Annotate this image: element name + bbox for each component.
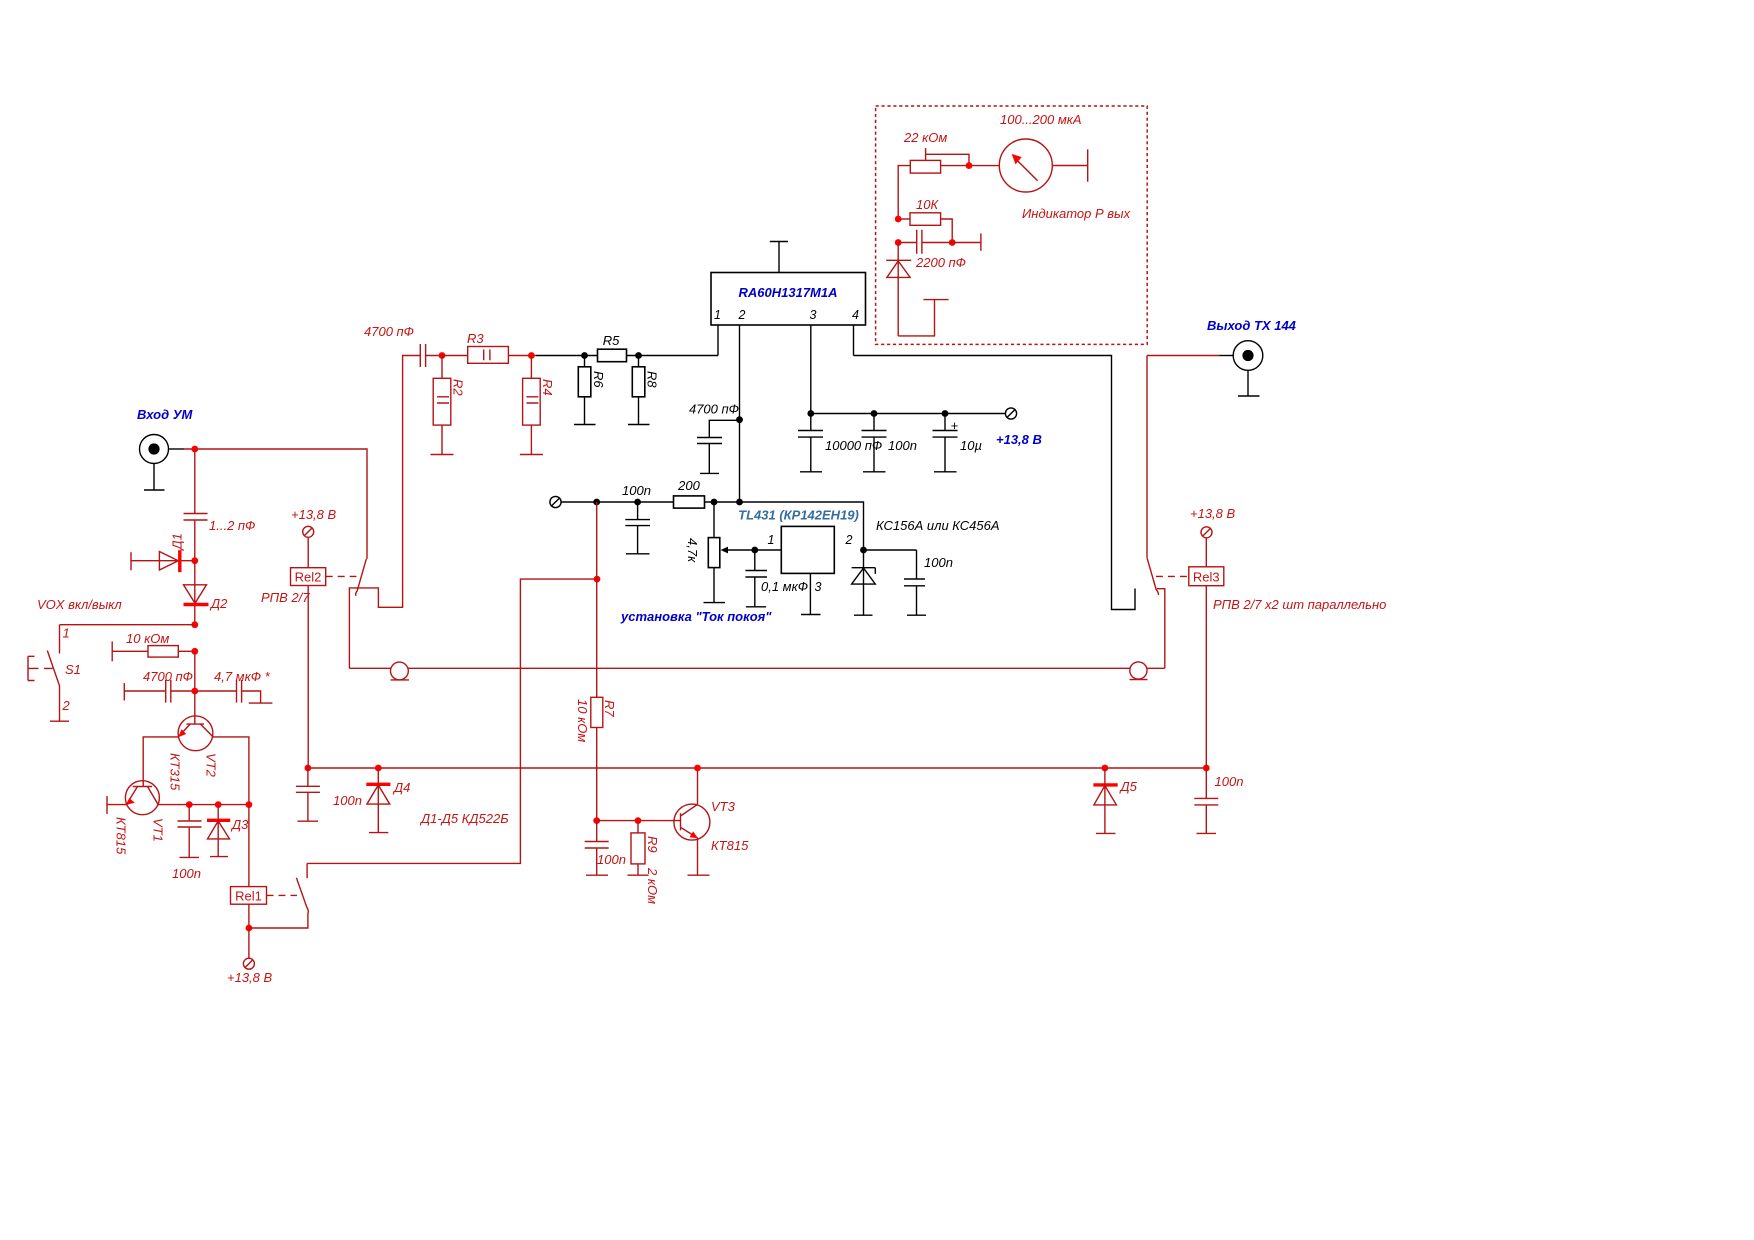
node D2 junction xyxy=(191,621,198,628)
ground D5 xyxy=(1096,832,1116,834)
svg-text:10К: 10К xyxy=(916,197,939,212)
node R7 bottom xyxy=(593,817,600,824)
capacitor 0,1uF xyxy=(745,550,808,607)
ground output connector xyxy=(1238,370,1260,396)
wire pin4 to Rel3 contact xyxy=(854,356,1136,610)
potentiometer 4,7k xyxy=(685,502,755,603)
svg-text:1: 1 xyxy=(714,308,721,322)
capacitor 4700pF (pin2) xyxy=(689,402,743,474)
node pin1 junction xyxy=(751,547,758,554)
resistor 200 xyxy=(674,478,705,508)
svg-text:VT2: VT2 xyxy=(204,753,219,778)
svg-text:Вход УМ: Вход УМ xyxy=(137,407,194,422)
svg-text:R7: R7 xyxy=(602,700,617,717)
node zener junction xyxy=(860,547,867,554)
connector Выход TX 144 xyxy=(1233,341,1263,371)
capacitor 100n (Rel3 bus) xyxy=(1194,768,1243,833)
svg-text:КТ315: КТ315 xyxy=(168,753,183,791)
ground 100n Rel2 xyxy=(298,820,319,822)
svg-text:2 кОм: 2 кОм xyxy=(645,867,660,904)
wire pin1 xyxy=(717,325,719,356)
svg-text:S1: S1 xyxy=(65,662,81,677)
wire VT1 collector bus xyxy=(158,804,249,806)
svg-text:R9: R9 xyxy=(645,836,660,853)
capacitor 100n (zener) xyxy=(904,550,953,615)
diode D4 xyxy=(366,768,410,833)
node bus D5 xyxy=(1102,765,1109,772)
svg-text:10 кОм: 10 кОм xyxy=(575,699,590,742)
svg-text:100n: 100n xyxy=(597,852,626,867)
relay contact Rel2 fixed path xyxy=(349,356,420,669)
svg-text:1...2 пФ: 1...2 пФ xyxy=(209,518,255,533)
wire VT3 emitter to ground xyxy=(697,838,699,875)
wire main 13.8V bus xyxy=(308,767,1206,769)
capacitor 100n (R7) xyxy=(585,821,626,876)
capacitor 10000pF xyxy=(798,414,882,472)
svg-text:4700 пФ: 4700 пФ xyxy=(689,402,739,417)
svg-text:VOX вкл/выкл: VOX вкл/выкл xyxy=(37,597,122,612)
feedthrough right xyxy=(1130,662,1148,680)
wire pin2 xyxy=(739,325,741,502)
dashed link Rel3 xyxy=(1156,575,1189,577)
node bus Rel2 xyxy=(305,765,312,772)
svg-text:4700 пФ: 4700 пФ xyxy=(364,324,414,339)
svg-text:Rel2: Rel2 xyxy=(295,570,322,585)
wire input to Rel2 lever xyxy=(184,449,367,559)
svg-text:10µ: 10µ xyxy=(960,438,982,453)
ground 100n rail xyxy=(626,553,650,555)
svg-text:R2: R2 xyxy=(451,379,466,396)
ground R6 xyxy=(574,424,596,426)
svg-text:РПВ 2/7: РПВ 2/7 xyxy=(261,590,310,605)
node bus D4 xyxy=(375,765,382,772)
ground TL431 pin3 xyxy=(801,614,821,616)
svg-text:VT1: VT1 xyxy=(151,818,166,842)
svg-text:+: + xyxy=(951,418,959,433)
wire output line red xyxy=(1147,356,1220,558)
svg-text:4,7 мкФ *: 4,7 мкФ * xyxy=(214,669,271,684)
svg-text:Д5: Д5 xyxy=(1119,779,1138,794)
svg-text:+13,8 В: +13,8 В xyxy=(291,507,337,522)
resistor R8 xyxy=(632,356,659,425)
ground 100n Rel3 xyxy=(1197,832,1217,834)
wire pin3 xyxy=(810,325,812,414)
svg-text:Rel1: Rel1 xyxy=(235,889,262,904)
node R2 junction xyxy=(439,352,446,359)
resistor R5 xyxy=(598,333,627,362)
wire input down xyxy=(194,449,196,514)
node bus VT3 xyxy=(694,765,701,772)
node caps junction xyxy=(191,688,198,695)
feedthrough left xyxy=(391,662,410,680)
ground R8 xyxy=(628,424,650,426)
transistor Q1 VT1 KT815 xyxy=(114,781,166,855)
svg-text:Выход ТХ 144: Выход ТХ 144 xyxy=(1207,318,1297,333)
svg-text:Д1: Д1 xyxy=(170,533,185,551)
relay coil Rel3 xyxy=(1189,506,1236,768)
node rail pot xyxy=(711,499,718,506)
wire VT2 emitter to VT1 base xyxy=(143,737,178,787)
capacitor 100n (VT1) xyxy=(172,805,202,881)
relay coil Rel2 xyxy=(261,507,337,768)
svg-text:100n: 100n xyxy=(888,438,917,453)
wire input line black segment xyxy=(536,355,718,357)
capacitor 100n (12V rail) xyxy=(622,483,651,554)
svg-text:КС156А или КС456А: КС156А или КС456А xyxy=(876,518,1000,533)
resistor 10K xyxy=(898,197,952,243)
diode D5 xyxy=(1093,768,1137,833)
wire bypass loop to R7 node xyxy=(307,579,597,863)
dashed link Rel1 xyxy=(267,894,298,896)
svg-text:100n: 100n xyxy=(622,483,651,498)
relay contact Rel3 fixed red xyxy=(1157,589,1165,669)
node R9 top xyxy=(635,817,642,824)
wire to caps xyxy=(194,651,196,691)
node 2200 left xyxy=(895,239,902,246)
svg-text:Индикатор Р вых: Индикатор Р вых xyxy=(1022,206,1131,221)
wire Rel1 to terminal xyxy=(248,928,250,958)
ground R2 xyxy=(431,454,454,456)
svg-text:+13,8 В: +13,8 В xyxy=(227,970,273,985)
svg-text:+13,8 В: +13,8 В xyxy=(1190,506,1236,521)
node 10K top xyxy=(895,216,902,223)
resistor R9 xyxy=(631,821,660,904)
svg-text:4: 4 xyxy=(852,308,859,322)
node 22k meter junction xyxy=(966,162,973,169)
node R5 left junction xyxy=(581,352,588,359)
wire VT3 collector to bus xyxy=(697,768,699,804)
terminal +13.8V black xyxy=(1005,408,1016,419)
node R7 line junction xyxy=(594,576,601,583)
node 10u junction xyxy=(942,410,949,417)
node pin3 junction xyxy=(807,410,814,417)
svg-text:RA60H1317M1A: RA60H1317M1A xyxy=(739,285,838,300)
wire +12V TX rail xyxy=(561,502,864,550)
ground R9 xyxy=(628,874,649,876)
svg-text:1: 1 xyxy=(63,626,70,641)
svg-text:100...200 мкА: 100...200 мкА xyxy=(1000,112,1082,127)
wire TL431 pin1 xyxy=(755,549,782,551)
wire RF bypass bus xyxy=(349,667,1164,669)
dashed box indicator xyxy=(876,106,1148,344)
node 2200 right xyxy=(949,239,956,246)
svg-text:2: 2 xyxy=(845,533,853,547)
svg-text:4700 пФ: 4700 пФ xyxy=(143,669,193,684)
svg-text:Д1-Д5 КД522Б: Д1-Д5 КД522Б xyxy=(419,811,509,826)
resistor R4 xyxy=(523,356,555,455)
svg-text:РПВ 2/7 х2 шт параллельно: РПВ 2/7 х2 шт параллельно xyxy=(1213,597,1386,612)
svg-text:100n: 100n xyxy=(172,866,201,881)
svg-text:КТ815: КТ815 xyxy=(114,817,129,855)
svg-text:3: 3 xyxy=(815,580,822,594)
ground D4 xyxy=(369,832,388,834)
node R4 junction xyxy=(528,352,535,359)
resistor R7 xyxy=(575,697,617,742)
svg-text:3: 3 xyxy=(810,308,817,322)
zener diode KC156A xyxy=(852,550,876,615)
relay contact Rel3 lever xyxy=(1147,558,1158,595)
dashed link Rel2 xyxy=(326,575,357,577)
ground 10u xyxy=(934,471,957,473)
capacitor 4700pF (input series) xyxy=(364,324,442,367)
node Rel1 junction xyxy=(246,925,253,932)
capacitor 4,7uF xyxy=(195,669,273,703)
svg-text:2: 2 xyxy=(62,698,71,713)
ground 4700pF xyxy=(700,472,719,474)
wire TL431 pin3 xyxy=(809,574,811,615)
relay contact Rel1 fixed xyxy=(306,863,308,878)
node VT2 collector xyxy=(246,801,253,808)
ground 10000pF xyxy=(800,471,822,473)
ground 0,1uF xyxy=(746,606,766,608)
transistor Q2 VT2 KT315 xyxy=(168,691,219,791)
svg-text:22 кОм: 22 кОм xyxy=(903,130,947,145)
svg-text:+13,8 В: +13,8 В xyxy=(996,432,1042,447)
ground 100n xyxy=(863,471,886,473)
node R5 right junction xyxy=(635,352,642,359)
svg-text:Rel3: Rel3 xyxy=(1193,570,1220,585)
node 10kOm junction xyxy=(191,648,198,655)
wire to output connector black xyxy=(1220,355,1234,357)
ground S1 xyxy=(50,720,69,722)
detector diode xyxy=(886,243,911,336)
ground D3 xyxy=(210,856,228,858)
node rail 100n xyxy=(634,499,641,506)
relay contact Rel1 lever xyxy=(296,878,308,914)
terminal +13,8V (Rel1) xyxy=(227,958,273,985)
ground 100n VT1 xyxy=(180,856,200,858)
svg-text:VT3: VT3 xyxy=(711,799,736,814)
ground 100n zener xyxy=(907,614,926,616)
capacitor 100n (Rel2 bus) xyxy=(296,768,362,821)
svg-text:100n: 100n xyxy=(924,555,953,570)
relay coil Rel1 xyxy=(231,805,267,928)
node D3 xyxy=(215,801,222,808)
svg-text:Д2: Д2 xyxy=(209,596,228,611)
node input junction xyxy=(191,446,198,453)
svg-text:1: 1 xyxy=(768,533,775,547)
svg-text:10 кОм: 10 кОм xyxy=(126,631,169,646)
svg-text:2200 пФ: 2200 пФ xyxy=(915,255,966,270)
svg-text:R4: R4 xyxy=(540,379,555,396)
node rail pin2 xyxy=(736,499,743,506)
svg-text:R5: R5 xyxy=(603,333,620,348)
diode D2 xyxy=(184,561,229,625)
svg-text:200: 200 xyxy=(677,478,700,493)
wire VT2 collector down xyxy=(213,737,249,805)
svg-text:100n: 100n xyxy=(333,793,362,808)
wire Rel1 switch return xyxy=(249,914,308,929)
module top flange terminal xyxy=(770,242,788,273)
svg-text:R3: R3 xyxy=(467,331,484,346)
capacitor 1...2pF xyxy=(184,514,256,561)
diode D1 xyxy=(131,533,195,572)
svg-text:R6: R6 xyxy=(591,371,606,388)
wire zener to 100n xyxy=(864,549,917,551)
ground 100n R7 xyxy=(586,874,608,876)
svg-text:2: 2 xyxy=(738,308,746,322)
wire pin4 xyxy=(853,325,855,356)
node rail red branch xyxy=(593,499,600,506)
node D1 junction xyxy=(191,557,198,564)
resistor 22 kOm trimmer xyxy=(898,148,999,219)
ground zener xyxy=(854,614,873,616)
resistor R2 xyxy=(433,356,465,455)
svg-text:Д4: Д4 xyxy=(392,780,410,795)
wire R7 node to VT3 base xyxy=(597,820,681,822)
svg-text:0,1 мкФ: 0,1 мкФ xyxy=(761,579,808,594)
svg-text:КТ815: КТ815 xyxy=(711,838,749,853)
wire red from +12 rail down xyxy=(596,502,598,821)
node 100n junction xyxy=(871,410,878,417)
svg-text:TL431 (КР142ЕН19): TL431 (КР142ЕН19) xyxy=(738,508,859,523)
ground pot xyxy=(704,602,726,604)
svg-text:R8: R8 xyxy=(645,371,660,388)
op-amp U2 TL431 box xyxy=(738,508,859,574)
ground VT3 xyxy=(688,874,710,876)
capacitor 10u electrolytic xyxy=(933,414,982,472)
diode D3 xyxy=(207,805,249,857)
ground detector xyxy=(898,300,948,336)
resistor R6 xyxy=(578,356,606,425)
capacitor 2200pF xyxy=(898,230,981,270)
transistor Q3 VT3 KT815 xyxy=(674,799,749,853)
svg-text:установка "Ток покоя": установка "Ток покоя" xyxy=(620,609,772,624)
svg-text:100n: 100n xyxy=(1215,774,1244,789)
svg-text:4,7к: 4,7к xyxy=(685,538,700,563)
node 100n VT1 xyxy=(186,801,193,808)
op-amp U1 RA60H1317M1A module box xyxy=(711,273,866,326)
wire pin3 rail xyxy=(811,413,1006,415)
meter 100-200uA xyxy=(999,139,1087,192)
ground R4 xyxy=(520,454,543,456)
resistor 10 kOm xyxy=(112,631,195,661)
wire to S1 xyxy=(60,625,195,654)
wire VT1 emitter to ground xyxy=(107,796,127,814)
resistor R3 xyxy=(442,331,536,363)
svg-text:Д3: Д3 xyxy=(230,817,249,832)
terminal +12V TX xyxy=(550,496,561,507)
relay contact Rel2 lever xyxy=(356,559,367,596)
connector Вход УМ xyxy=(140,435,185,464)
capacitor 100n (13.8V rail) xyxy=(862,414,917,472)
capacitor 4700pF (VOX) xyxy=(124,669,195,703)
node bus Rel3 xyxy=(1203,765,1210,772)
ground input connector xyxy=(144,464,165,491)
switch S1 xyxy=(28,626,81,722)
